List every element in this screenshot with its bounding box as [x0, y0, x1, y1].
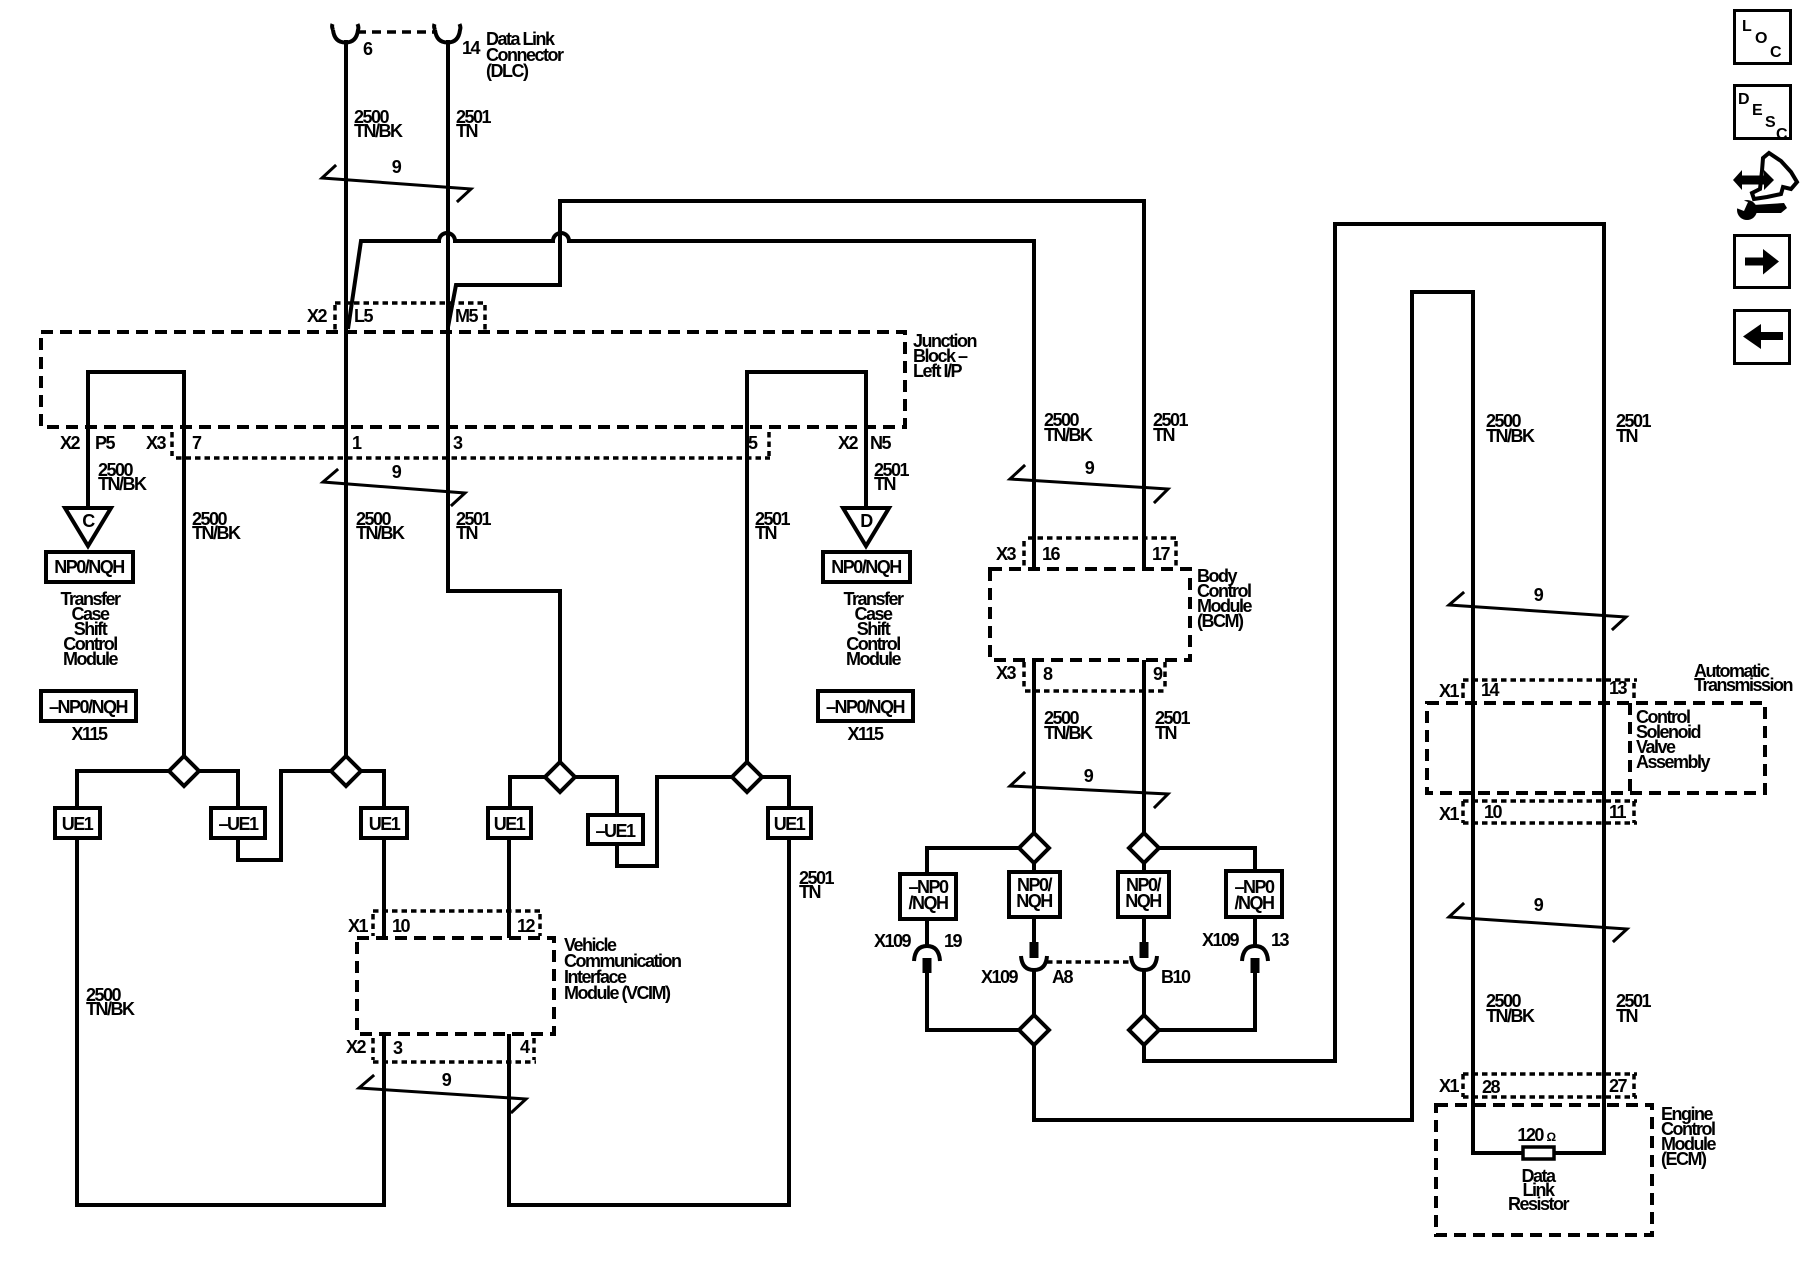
option box UE1 third: [488, 808, 531, 838]
svg-text:7: 7: [192, 433, 202, 453]
svg-text:L: L: [1742, 18, 1752, 35]
svg-text:9: 9: [1153, 664, 1163, 684]
svg-text:S: S: [1765, 114, 1776, 131]
wire splice S2 right branch to UE1: [361, 771, 384, 808]
wire 2500 TN/BK branch: L5 diagonal up, across with two hops to BCM X3 pin 16: [348, 233, 1034, 569]
svg-text:TN/BK: TN/BK: [86, 999, 135, 1019]
splice diamond S6: [1129, 833, 1159, 863]
wire 2501 TN circuit: DLC pin 14 down through junction block X2-M5 to pin 3, jog right to splice: [448, 40, 560, 763]
wire 2500 TN/BK circuit: DLC pin 6 down through junction block X2-L5 to pin 1 and splice: [344, 40, 348, 756]
connector X109 pin 19 female terminal: [914, 946, 940, 961]
wire UE1 to VCIM X1 pin 10: [382, 838, 386, 938]
wire splice S3 left branch to UE1: [510, 777, 545, 808]
svg-text:O: O: [1755, 30, 1767, 47]
splice diamond S5: [1019, 833, 1049, 863]
wire 2501 TN: splice S8 down, right, up and over to A/T X1 pin 13 down to ECM pin 27: [1144, 224, 1604, 1153]
svg-text:TN/BK: TN/BK: [1486, 1006, 1535, 1026]
svg-text:1: 1: [352, 433, 362, 453]
back arrow icon box: [1735, 311, 1790, 364]
connector X109 pin A8 female terminal: [1021, 956, 1047, 970]
svg-text:Transmission: Transmission: [1694, 675, 1793, 695]
connector X109 pin 19 male terminal: [923, 958, 932, 973]
splice diamond S1: [169, 756, 199, 786]
Control Solenoid Valve Assembly dashed divider: [1628, 703, 1632, 793]
wire splice S5 down to NP0/NQH: [1032, 863, 1036, 872]
option box NP0/NQH right: [823, 552, 910, 582]
wire splice S4 right branch to UE1: [762, 777, 789, 808]
svg-text:UE1: UE1: [494, 814, 526, 834]
harness arrow 9 below junction block: [323, 470, 465, 505]
splice diamond S7: [1019, 1015, 1049, 1045]
svg-text:X1: X1: [1439, 1076, 1460, 1096]
svg-text:12: 12: [517, 916, 536, 936]
svg-text:X2: X2: [346, 1037, 367, 1057]
svg-text:UE1: UE1: [369, 814, 401, 834]
option box UE1 fourth: [768, 808, 811, 838]
wire junction block internal X2-P5 to X3-7: [88, 372, 184, 756]
option box -NP0/NQH mid left: [900, 874, 956, 919]
svg-text:Resistor: Resistor: [1508, 1194, 1570, 1214]
svg-text:X109: X109: [1202, 930, 1240, 950]
splice diamond S3: [545, 762, 575, 792]
connector C triangle to transfer case shift control module: [65, 508, 111, 546]
svg-text:Assembly: Assembly: [1636, 752, 1711, 772]
Data Link Connector DLC pin 14 terminal: [434, 24, 460, 43]
Body Control Module BCM dashed box: [990, 569, 1190, 660]
option box UE1 second: [361, 808, 407, 838]
svg-text:UE1: UE1: [774, 814, 806, 834]
option box NP0/NQH mid left: [1009, 872, 1060, 917]
svg-text:9: 9: [392, 157, 402, 177]
svg-text:Module: Module: [846, 649, 901, 669]
wire -UE1 loop to splice S2: [238, 771, 331, 860]
connector X2 row VCIM dashed box: [373, 1038, 536, 1062]
Data Link Connector DLC pin 6 terminal: [332, 24, 358, 43]
wire 2500 TN/BK: BCM X3 pin 8 down to splice S5: [1032, 660, 1036, 833]
svg-text:10: 10: [1484, 802, 1503, 822]
connector X109 pin B10 male terminal: [1140, 942, 1149, 958]
svg-text:TN/BK: TN/BK: [356, 523, 405, 543]
svg-text:TN: TN: [456, 523, 477, 543]
svg-text:(ECM): (ECM): [1661, 1149, 1707, 1169]
svg-text:3: 3: [393, 1038, 403, 1058]
svg-text:X109: X109: [874, 931, 912, 951]
svg-text:16: 16: [1042, 544, 1061, 564]
svg-text:–NP0/NQH: –NP0/NQH: [826, 697, 905, 717]
svg-text:/NQH: /NQH: [1235, 893, 1275, 913]
svg-text:–UE1: –UE1: [218, 814, 259, 834]
svg-text:X109: X109: [981, 967, 1019, 987]
svg-text:14: 14: [462, 38, 481, 58]
splice diamond S4: [732, 762, 762, 792]
wire 2501 TN branch: M5 diagonal up, across top to BCM X3 pin 17: [448, 201, 1144, 569]
connector X109 pin 13 male terminal: [1251, 958, 1260, 973]
option box -UE1 second: [588, 815, 643, 844]
connector X109 pin A8 male terminal: [1030, 942, 1039, 958]
connector X1 row VCIM dashed box: [373, 911, 542, 936]
harness arrow 9 above automatic transmission: [1449, 593, 1626, 629]
svg-text:TN/BK: TN/BK: [1486, 426, 1535, 446]
svg-text:TN/BK: TN/BK: [1044, 723, 1093, 743]
svg-text:TN: TN: [1153, 425, 1174, 445]
LOC icon box: [1735, 11, 1791, 64]
connector X2 row L5 M5 dashed box: [335, 303, 487, 330]
svg-text:Module (VCIM): Module (VCIM): [564, 983, 671, 1003]
wire splice S1 right branch to -UE1: [199, 771, 238, 808]
Data Link Connector DLC dashed outline: [357, 30, 436, 34]
wire splice S5 left branch to -NP0/NQH: [927, 848, 1019, 874]
svg-text:X1: X1: [1439, 804, 1460, 824]
connector D triangle to transfer case shift control module: [843, 508, 889, 546]
svg-text:4: 4: [520, 1037, 530, 1057]
svg-text:–NP0/NQH: –NP0/NQH: [49, 697, 128, 717]
option box NP0/NQH mid right: [1118, 872, 1169, 917]
wire 2500 TN/BK: UE1 down, along bottom, up to VCIM X2 pin 3: [77, 838, 384, 1205]
svg-text:B10: B10: [1161, 967, 1191, 987]
svg-text:P5: P5: [95, 433, 116, 453]
svg-text:X3: X3: [996, 663, 1017, 683]
connector X1 row 10 11 automatic transmission dashed box: [1463, 801, 1637, 823]
svg-text:5: 5: [748, 433, 758, 453]
svg-text:X2: X2: [60, 433, 81, 453]
wire 2501 TN: BCM X3 pin 9 down to splice S6: [1142, 660, 1146, 833]
svg-text:17: 17: [1152, 544, 1171, 564]
svg-text:TN: TN: [1616, 1006, 1637, 1026]
splice diamond S8: [1129, 1015, 1159, 1045]
svg-text:19: 19: [944, 931, 963, 951]
svg-text:3: 3: [453, 433, 463, 453]
option box UE1 first: [55, 808, 100, 838]
harness arrow 9 below BCM: [1010, 773, 1168, 807]
svg-text:28: 28: [1482, 1077, 1501, 1097]
Junction Block Left I/P dashed box: [41, 332, 905, 427]
option box NP0/NQH left: [46, 552, 133, 582]
svg-text:TN: TN: [799, 882, 820, 902]
svg-text:TN/BK: TN/BK: [354, 121, 403, 141]
svg-text:M5: M5: [455, 306, 478, 326]
option box -NP0/NQH right: [818, 691, 913, 721]
option box -UE1 first: [211, 808, 265, 838]
svg-text:14: 14: [1481, 680, 1500, 700]
wire -NP0/NQH to connector X109-13 and down to splice S8: [1253, 917, 1257, 947]
svg-text:TN: TN: [1155, 723, 1176, 743]
svg-text:C: C: [1776, 126, 1788, 143]
diagnostic tool icon double arrow: [1733, 170, 1774, 190]
svg-text:N5: N5: [870, 433, 891, 453]
harness arrow 9 at DLC: [322, 166, 471, 201]
wire -UE1 loop to splice S4: [617, 777, 732, 866]
svg-text:Module: Module: [63, 649, 118, 669]
svg-text:9: 9: [392, 462, 402, 482]
svg-text:E: E: [1752, 102, 1763, 119]
connector X3 row 16 17 BCM dashed box: [1024, 538, 1178, 567]
svg-text:NQH: NQH: [1016, 891, 1052, 911]
svg-text:TN/BK: TN/BK: [98, 474, 147, 494]
diagnostic tool icon wrench: [1737, 200, 1757, 220]
svg-text:C: C: [82, 511, 95, 531]
harness arrow 9 above BCM: [1010, 466, 1168, 502]
ICONS: [1731, 11, 1797, 364]
wire junction block internal X3-5 to X2-N5: [747, 372, 866, 763]
connector X109 pin 13 female terminal: [1242, 946, 1268, 961]
svg-text:X3: X3: [146, 433, 167, 453]
Vehicle Communication Interface Module VCIM dashed box: [357, 938, 554, 1034]
svg-text:L5: L5: [354, 306, 373, 326]
wire NP0/NQH through connector X109-A8 to splice S7: [1032, 917, 1036, 944]
wire splice S6 down to NP0/NQH: [1142, 863, 1146, 872]
svg-text:(BCM): (BCM): [1197, 611, 1244, 631]
svg-text:27: 27: [1609, 1076, 1628, 1096]
DESC icon box: [1735, 86, 1791, 139]
svg-text:X1: X1: [348, 916, 369, 936]
Automatic Transmission dashed box: [1427, 703, 1765, 793]
svg-text:X2: X2: [838, 433, 859, 453]
svg-text:NP0/NQH: NP0/NQH: [54, 557, 124, 577]
diagnostic tool icon outline shape: [1752, 153, 1797, 199]
svg-text:Left I/P: Left I/P: [913, 361, 962, 381]
svg-text:9: 9: [442, 1070, 452, 1090]
svg-text:13: 13: [1271, 930, 1290, 950]
connector X1 row 28 27 ECM dashed box: [1463, 1074, 1637, 1097]
svg-text:TN/BK: TN/BK: [192, 523, 241, 543]
svg-text:D: D: [1738, 91, 1750, 108]
connector X1 row 14 13 automatic transmission dashed box: [1463, 680, 1637, 701]
svg-text:TN: TN: [755, 523, 776, 543]
wire 2501 TN: UE1 down, along bottom, up to VCIM X2 pin 4: [509, 838, 789, 1205]
svg-text:11: 11: [1609, 802, 1627, 822]
svg-text:9: 9: [1534, 895, 1544, 915]
wire NP0/NQH through connector X109-B10 to splice S8: [1142, 917, 1146, 944]
option box -NP0/NQH mid right: [1226, 871, 1282, 917]
svg-text:TN: TN: [1616, 426, 1637, 446]
svg-text:NP0/NQH: NP0/NQH: [831, 557, 901, 577]
svg-text:9: 9: [1085, 458, 1095, 478]
wire 2500 TN/BK: splice S7 down, right, up and over to A/T X1 pin 14 down to ECM pin 28: [1034, 292, 1525, 1153]
svg-text:C: C: [1770, 44, 1782, 61]
harness arrow 9 above ECM: [1449, 904, 1627, 941]
svg-text:NQH: NQH: [1125, 891, 1161, 911]
splice diamond S2: [331, 756, 361, 786]
option box -NP0/NQH left: [41, 691, 136, 721]
svg-text:13: 13: [1609, 678, 1628, 698]
wire splice S3 right branch to -UE1: [575, 777, 617, 815]
data link resistor 120 ohm: [1523, 1147, 1554, 1159]
connector X109 A8 B10 dashed link: [1047, 960, 1129, 964]
svg-text:TN: TN: [874, 474, 895, 494]
wire splice S1 left branch to UE1: [77, 771, 169, 808]
wire -NP0/NQH to connector X109-19 and down to splice S7: [925, 919, 929, 947]
svg-text:8: 8: [1043, 664, 1053, 684]
harness arrow 9 below VCIM: [359, 1076, 526, 1112]
svg-text:D: D: [860, 511, 873, 531]
wire splice S6 right branch to -NP0/NQH: [1159, 848, 1255, 871]
svg-text:10: 10: [392, 916, 411, 936]
svg-text:(DLC): (DLC): [486, 61, 529, 81]
connector X3 row 7 1 3 5 dashed box: [172, 432, 770, 458]
svg-text:UE1: UE1: [62, 814, 94, 834]
svg-text:X2: X2: [307, 306, 328, 326]
svg-text:9: 9: [1084, 766, 1094, 786]
svg-text:TN/BK: TN/BK: [1044, 425, 1093, 445]
connector X3 row 8 9 BCM dashed box: [1024, 662, 1167, 691]
connector X109 pin B10 female terminal: [1131, 956, 1157, 970]
forward arrow icon box: [1735, 236, 1790, 288]
svg-text:/NQH: /NQH: [909, 893, 949, 913]
wire UE1 to VCIM X1 pin 12: [507, 838, 511, 938]
svg-text:9: 9: [1534, 585, 1544, 605]
svg-text:X115: X115: [847, 724, 884, 744]
svg-text:X3: X3: [996, 544, 1017, 564]
svg-text:A8: A8: [1052, 967, 1073, 987]
svg-text:TN: TN: [456, 121, 477, 141]
svg-text:X1: X1: [1439, 681, 1460, 701]
svg-text:X115: X115: [71, 724, 108, 744]
svg-text:6: 6: [363, 39, 373, 59]
Engine Control Module ECM dashed box: [1436, 1105, 1652, 1235]
svg-text:–UE1: –UE1: [595, 821, 636, 841]
